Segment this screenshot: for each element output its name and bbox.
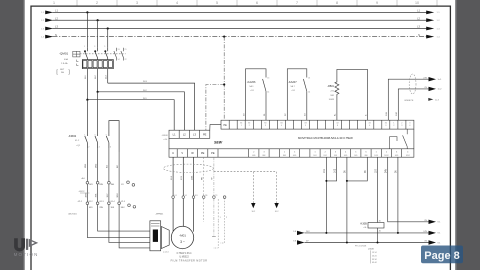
wire 1L2 to drive (98, 92, 185, 130)
svg-text:0V: 0V (396, 170, 398, 173)
rail entry arrows (297, 231, 305, 235)
svg-text:33 34: 33 34 (372, 259, 377, 261)
svg-text:4: 4 (99, 146, 100, 148)
thermistor tail to motor (213, 198, 225, 248)
svg-text:0.75kW 1:36.4: 0.75kW 1:36.4 (177, 253, 193, 255)
svg-text:PE: PE (223, 124, 227, 127)
svg-text:PE: PE (211, 151, 215, 155)
wire taps down to QM01 (87, 12, 107, 47)
wire DI02 jog (326, 157, 336, 181)
svg-text:1: 1 (84, 46, 85, 48)
svg-text:FILM TRANSFER MOTOR: FILM TRANSFER MOTOR (171, 260, 208, 263)
drive bottom terminal row (169, 149, 414, 157)
svg-text:SEW: SEW (214, 141, 223, 145)
bus exit arrows (right) (426, 11, 434, 39)
Page 8 badge (421, 246, 463, 264)
svg-text:MOTION: MOTION (14, 252, 39, 257)
svg-text:7BK: 7BK (96, 193, 98, 198)
svg-text:40A: 40A (64, 58, 68, 61)
svg-text:10.2: 10.2 (275, 211, 279, 213)
svg-text:-UF03: -UF03 (161, 135, 168, 137)
off page arrows top right (429, 77, 437, 81)
control wire labels (324, 168, 398, 173)
svg-text:13: 13 (118, 49, 120, 51)
svg-text:5: 5 (216, 1, 218, 5)
svg-text:DI02: DI02 (324, 155, 327, 157)
motor M01 (171, 226, 193, 248)
node L3 tap (107, 27, 109, 29)
drive body outline (169, 125, 414, 149)
svg-text:7BN: 7BN (99, 207, 103, 209)
svg-text:DI01: DI01 (313, 155, 316, 157)
QM01 pole contact ticks (84, 50, 106, 52)
node jog GND (346, 180, 348, 182)
svg-text:14: 14 (267, 92, 269, 94)
svg-text:PE: PE (203, 132, 207, 136)
motor cable ellipse (163, 164, 213, 172)
svg-text:90R: 90R (330, 95, 334, 97)
svg-text:4: 4 (409, 125, 410, 127)
drive input terminal row (169, 130, 210, 138)
svg-text:-RB01: -RB01 (327, 85, 334, 88)
KM02 feeder wires (87, 92, 97, 134)
svg-text:5: 5 (104, 46, 105, 48)
QM01 output stubs with wire labels (87, 69, 107, 100)
svg-text:1: 1 (376, 152, 377, 154)
node L1 tap (86, 11, 88, 13)
svg-text:PTC 157/158: PTC 157/158 (355, 245, 366, 247)
QM01 pole 3 (105, 48, 108, 60)
wire N bus (dashed) (53, 36, 428, 38)
svg-text:3: 3 (94, 135, 95, 137)
svg-text:21: 21 (125, 49, 127, 51)
KM02 pin numbers (84, 135, 111, 149)
wire GND jog (347, 157, 367, 181)
svg-text:3: 3 (401, 125, 402, 127)
24V rail (305, 232, 429, 234)
relay K30B coil (368, 223, 384, 229)
top ruler ticks (77, 0, 437, 6)
svg-text:U: U (172, 151, 174, 155)
svg-text:REF: REF (263, 155, 266, 157)
svg-text:1M1: 1M1 (89, 184, 93, 186)
svg-text:-X1.2: -X1.2 (88, 201, 93, 203)
wire L1 bus (53, 11, 428, 13)
motor-starter QM01 labels (56, 52, 70, 76)
svg-text:4: 4 (281, 125, 282, 127)
svg-text:-LC14: -LC14 (163, 251, 169, 253)
svg-text:1: 1 (220, 217, 221, 219)
node branch L2 (97, 91, 99, 93)
svg-text:1: 1 (53, 1, 55, 5)
svg-text:13 14: 13 14 (372, 252, 377, 254)
KM02 pole 1 (85, 134, 88, 148)
svg-text:10.2: 10.2 (251, 211, 255, 213)
svg-text:4BN: 4BN (85, 193, 87, 198)
svg-text:8: 8 (336, 1, 338, 5)
wire L3 bus (53, 28, 428, 30)
svg-text:24V: 24V (306, 231, 310, 233)
relay contact KA206 (246, 69, 267, 120)
KM02 bridge wire (109, 121, 119, 152)
svg-text:-WPM01: -WPM01 (156, 214, 165, 216)
QM01 aux contact 1 (114, 48, 117, 61)
QM01 aux pin numbers (84, 46, 127, 61)
motor terminal circles (172, 196, 215, 199)
svg-text:157: 157 (375, 168, 377, 173)
svg-text:W1: W1 (195, 195, 198, 197)
svg-text:-X1.1: -X1.1 (78, 201, 83, 203)
svg-text:4: 4 (345, 152, 346, 154)
svg-text:REF: REF (283, 155, 286, 157)
svg-text:-X1.4: -X1.4 (110, 201, 115, 203)
svg-text:6: 6 (256, 1, 258, 5)
svg-text:1K2: 1K2 (334, 168, 336, 173)
svg-text:SET: SET (60, 69, 65, 71)
wire KM02 out 1 (87, 148, 149, 248)
svg-text:3: 3 (396, 152, 397, 154)
svg-text:100W: 100W (329, 99, 334, 101)
svg-text:-W30B PE: -W30B PE (404, 100, 414, 102)
shield arrows down (251, 203, 255, 208)
bus entry arrows (left) (45, 11, 53, 39)
wire L2 bus (53, 19, 428, 21)
svg-text:13: 13 (267, 78, 269, 80)
svg-text:DI03: DI03 (334, 155, 337, 157)
QM01 mechanical linkage (dashed) (80, 53, 126, 55)
wire labels brake circuit (85, 163, 119, 168)
svg-text:1BN: 1BN (99, 184, 103, 186)
tiny terminal numbers (78, 184, 126, 209)
svg-text:7: 7 (296, 1, 298, 5)
terminal strip X1 circles row 2 (86, 202, 136, 208)
svg-text:N: N (55, 33, 57, 37)
svg-text:4: 4 (176, 1, 178, 5)
svg-text:13: 13 (308, 78, 310, 80)
svg-text:3: 3 (94, 46, 95, 48)
PE dash-dot drop from N bus (223, 36, 225, 38)
svg-text:A2: A2 (379, 229, 381, 232)
mid wire labels (85, 193, 119, 198)
svg-text:-K30B: -K30B (360, 222, 367, 225)
svg-text:9-: 9- (365, 114, 367, 116)
svg-text:3: 3 (136, 1, 138, 5)
terminal labels left (68, 177, 164, 216)
terminal strip X02 circles row 1 (86, 181, 135, 186)
svg-text:1: 1 (284, 152, 285, 154)
svg-text:3: 3 (263, 152, 264, 154)
svg-text:9BU: 9BU (121, 207, 125, 209)
svg-text:V1: V1 (185, 195, 187, 197)
svg-text:N: N (418, 33, 420, 37)
wire GND out (397, 157, 399, 233)
svg-text:14: 14 (118, 59, 120, 61)
svg-text:2: 2 (88, 146, 89, 148)
svg-text:3: 3 (335, 152, 336, 154)
system bus wires to right (388, 79, 430, 120)
svg-text:8: 8 (337, 125, 338, 127)
svg-text:24V: 24V (423, 231, 427, 233)
QM01 pole 1 (85, 48, 88, 60)
svg-text:6: 6 (110, 146, 111, 148)
svg-text:43 44: 43 44 (372, 262, 377, 264)
logo UP MOTION (14, 238, 39, 257)
bus labels (55, 9, 421, 37)
svg-text:-KA207: -KA207 (288, 80, 297, 84)
wire DI01 (325, 157, 327, 233)
svg-text:14: 14 (308, 92, 310, 94)
svg-text:2: 2 (325, 152, 326, 154)
svg-text:24V: 24V (423, 77, 427, 79)
svg-text:9BU: 9BU (117, 193, 119, 198)
svg-text:5: 5 (294, 152, 295, 154)
svg-text:-KA206: -KA206 (247, 80, 256, 84)
svg-text:5: 5 (355, 152, 356, 154)
svg-text:1W1: 1W1 (191, 175, 193, 180)
svg-text:2: 2 (226, 217, 227, 219)
rail exit arrows (429, 220, 437, 224)
relay contact KA207 (287, 69, 307, 120)
svg-text:1K1: 1K1 (324, 168, 326, 173)
cable marker ellipse (409, 74, 416, 94)
svg-text:DO01: DO01 (374, 155, 378, 157)
svg-text:1M4: 1M4 (111, 184, 115, 186)
KM02 pole 2 (95, 134, 98, 148)
svg-text:A1: A1 (379, 220, 381, 223)
motor wire labels (171, 175, 214, 180)
wire 24VIO out (388, 157, 430, 222)
svg-text:3: 3 (385, 125, 386, 127)
svg-text:-WCT001: -WCT001 (68, 214, 77, 216)
svg-text:1: 1 (314, 152, 315, 154)
svg-text:MOVITRAC MC07B-0008-5A3-4-30 0: MOVITRAC MC07B-0008-5A3-4-30 0.75kW (298, 136, 353, 140)
wire 1L1 to drive (87, 100, 174, 131)
svg-text:V: V (181, 151, 183, 155)
svg-text:1: 1 (241, 125, 242, 127)
svg-text:3: 3 (265, 125, 266, 127)
svg-text:PE: PE (201, 151, 205, 155)
svg-text:4: 4 (407, 152, 408, 154)
svg-text:10: 10 (415, 1, 419, 5)
svg-text:-X1.5: -X1.5 (121, 201, 126, 203)
wire 1L3 to drive (108, 83, 195, 130)
svg-text:Page 8: Page 8 (424, 250, 459, 262)
svg-text:-K30B: -K30B (368, 249, 374, 251)
svg-text:5: 5 (305, 125, 306, 127)
svg-text:5: 5 (106, 135, 107, 137)
svg-text:1GY: 1GY (107, 193, 109, 198)
motor caption (171, 253, 208, 262)
svg-text:22: 22 (125, 59, 127, 61)
svg-text:3 ~: 3 ~ (180, 240, 185, 244)
svg-text:2: 2 (96, 1, 98, 5)
svg-text:2: 2 (393, 125, 394, 127)
svg-text:DI05: DI05 (354, 155, 357, 157)
KM02 pole 3 (106, 134, 109, 148)
QM01 operator box (73, 51, 80, 57)
QM01 thermal overload block (82, 60, 113, 69)
drive internal relay contact (390, 129, 408, 149)
svg-text:IL M5022: IL M5022 (179, 257, 189, 259)
node jog DI02 (325, 180, 327, 182)
node PE branch (223, 83, 225, 85)
braking resistor RB01 (335, 69, 368, 120)
QM01 aux contact 2 (121, 48, 124, 61)
svg-text:1: 1 (84, 135, 85, 137)
svg-text:23 24: 23 24 (372, 255, 377, 257)
wire DO01 to coil (377, 157, 379, 222)
svg-text:2: 2 (253, 152, 254, 154)
0V rail (305, 242, 429, 244)
svg-text:9: 9 (376, 1, 378, 5)
svg-text:6: 6 (365, 152, 366, 154)
svg-text:4: 4 (369, 125, 370, 127)
wire labels above drive (243, 111, 398, 116)
PE wire dashed (204, 157, 219, 222)
svg-text:U1: U1 (175, 195, 177, 197)
QM01 pole 2 (95, 48, 98, 60)
svg-text:DO02: DO02 (406, 155, 410, 157)
svg-text:-M01: -M01 (179, 234, 186, 238)
svg-text:-X1.3: -X1.3 (99, 201, 104, 203)
svg-text:0V: 0V (365, 170, 367, 173)
svg-text:-KM02: -KM02 (68, 134, 77, 138)
svg-text:2: 2 (386, 152, 387, 154)
wire DI03 (346, 157, 348, 242)
svg-text:24V: 24V (386, 168, 388, 173)
thermistor wire dash-dot (213, 157, 215, 236)
svg-text:2.8-4A: 2.8-4A (61, 62, 68, 65)
drive top terminal row (221, 120, 414, 129)
svg-text:-QM01: -QM01 (59, 52, 69, 56)
motor flange (161, 227, 169, 249)
node branch L1 (86, 99, 88, 101)
rail nodes (325, 232, 327, 234)
svg-text:2: 2 (249, 125, 250, 127)
node L2 tap (97, 19, 99, 21)
svg-text:0V: 0V (345, 170, 347, 173)
brake rectifier box (150, 221, 161, 251)
